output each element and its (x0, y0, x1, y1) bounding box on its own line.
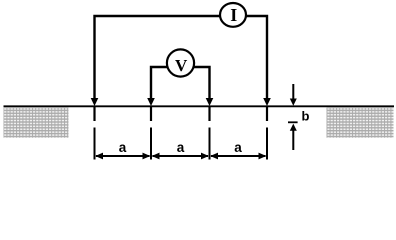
electrode arrow P1 (147, 98, 155, 106)
extension line under C1 (94, 128, 96, 160)
extension line under P1 (150, 128, 152, 160)
electrode arrow C1 (91, 98, 99, 106)
voltmeter V (167, 49, 194, 76)
svg-text:a: a (177, 140, 185, 155)
svg-text:a: a (119, 140, 127, 155)
ammeter I (220, 3, 246, 27)
svg-text:V: V (175, 56, 188, 75)
electrode arrow C2 (263, 98, 271, 106)
svg-text:b: b (302, 109, 310, 124)
soil block right (327, 107, 394, 137)
dimension b upper arrow (292, 84, 294, 99)
dimension b tick (288, 121, 298, 123)
wire top (current loop) (95, 16, 268, 99)
extension line under P2 (209, 128, 211, 160)
electrode stem P2 below surface (208, 107, 210, 121)
soil block left (4, 107, 69, 137)
dimension a2 arrow line (153, 155, 209, 157)
dimension a3 arrow line (211, 155, 266, 157)
ground surface line (4, 105, 395, 107)
electrode stem P1 below surface (150, 107, 152, 121)
electrode stem C1 below surface (93, 107, 95, 121)
dimension a1 arrow line (96, 155, 150, 157)
wire voltmeter loop (151, 67, 210, 99)
dimension b lower arrow (290, 124, 297, 131)
svg-text:a: a (234, 140, 242, 155)
electrode stem C2 below surface (266, 107, 268, 121)
svg-text:I: I (230, 5, 237, 25)
electrode arrow P2 (206, 98, 214, 106)
extension line under C2 (266, 128, 268, 160)
